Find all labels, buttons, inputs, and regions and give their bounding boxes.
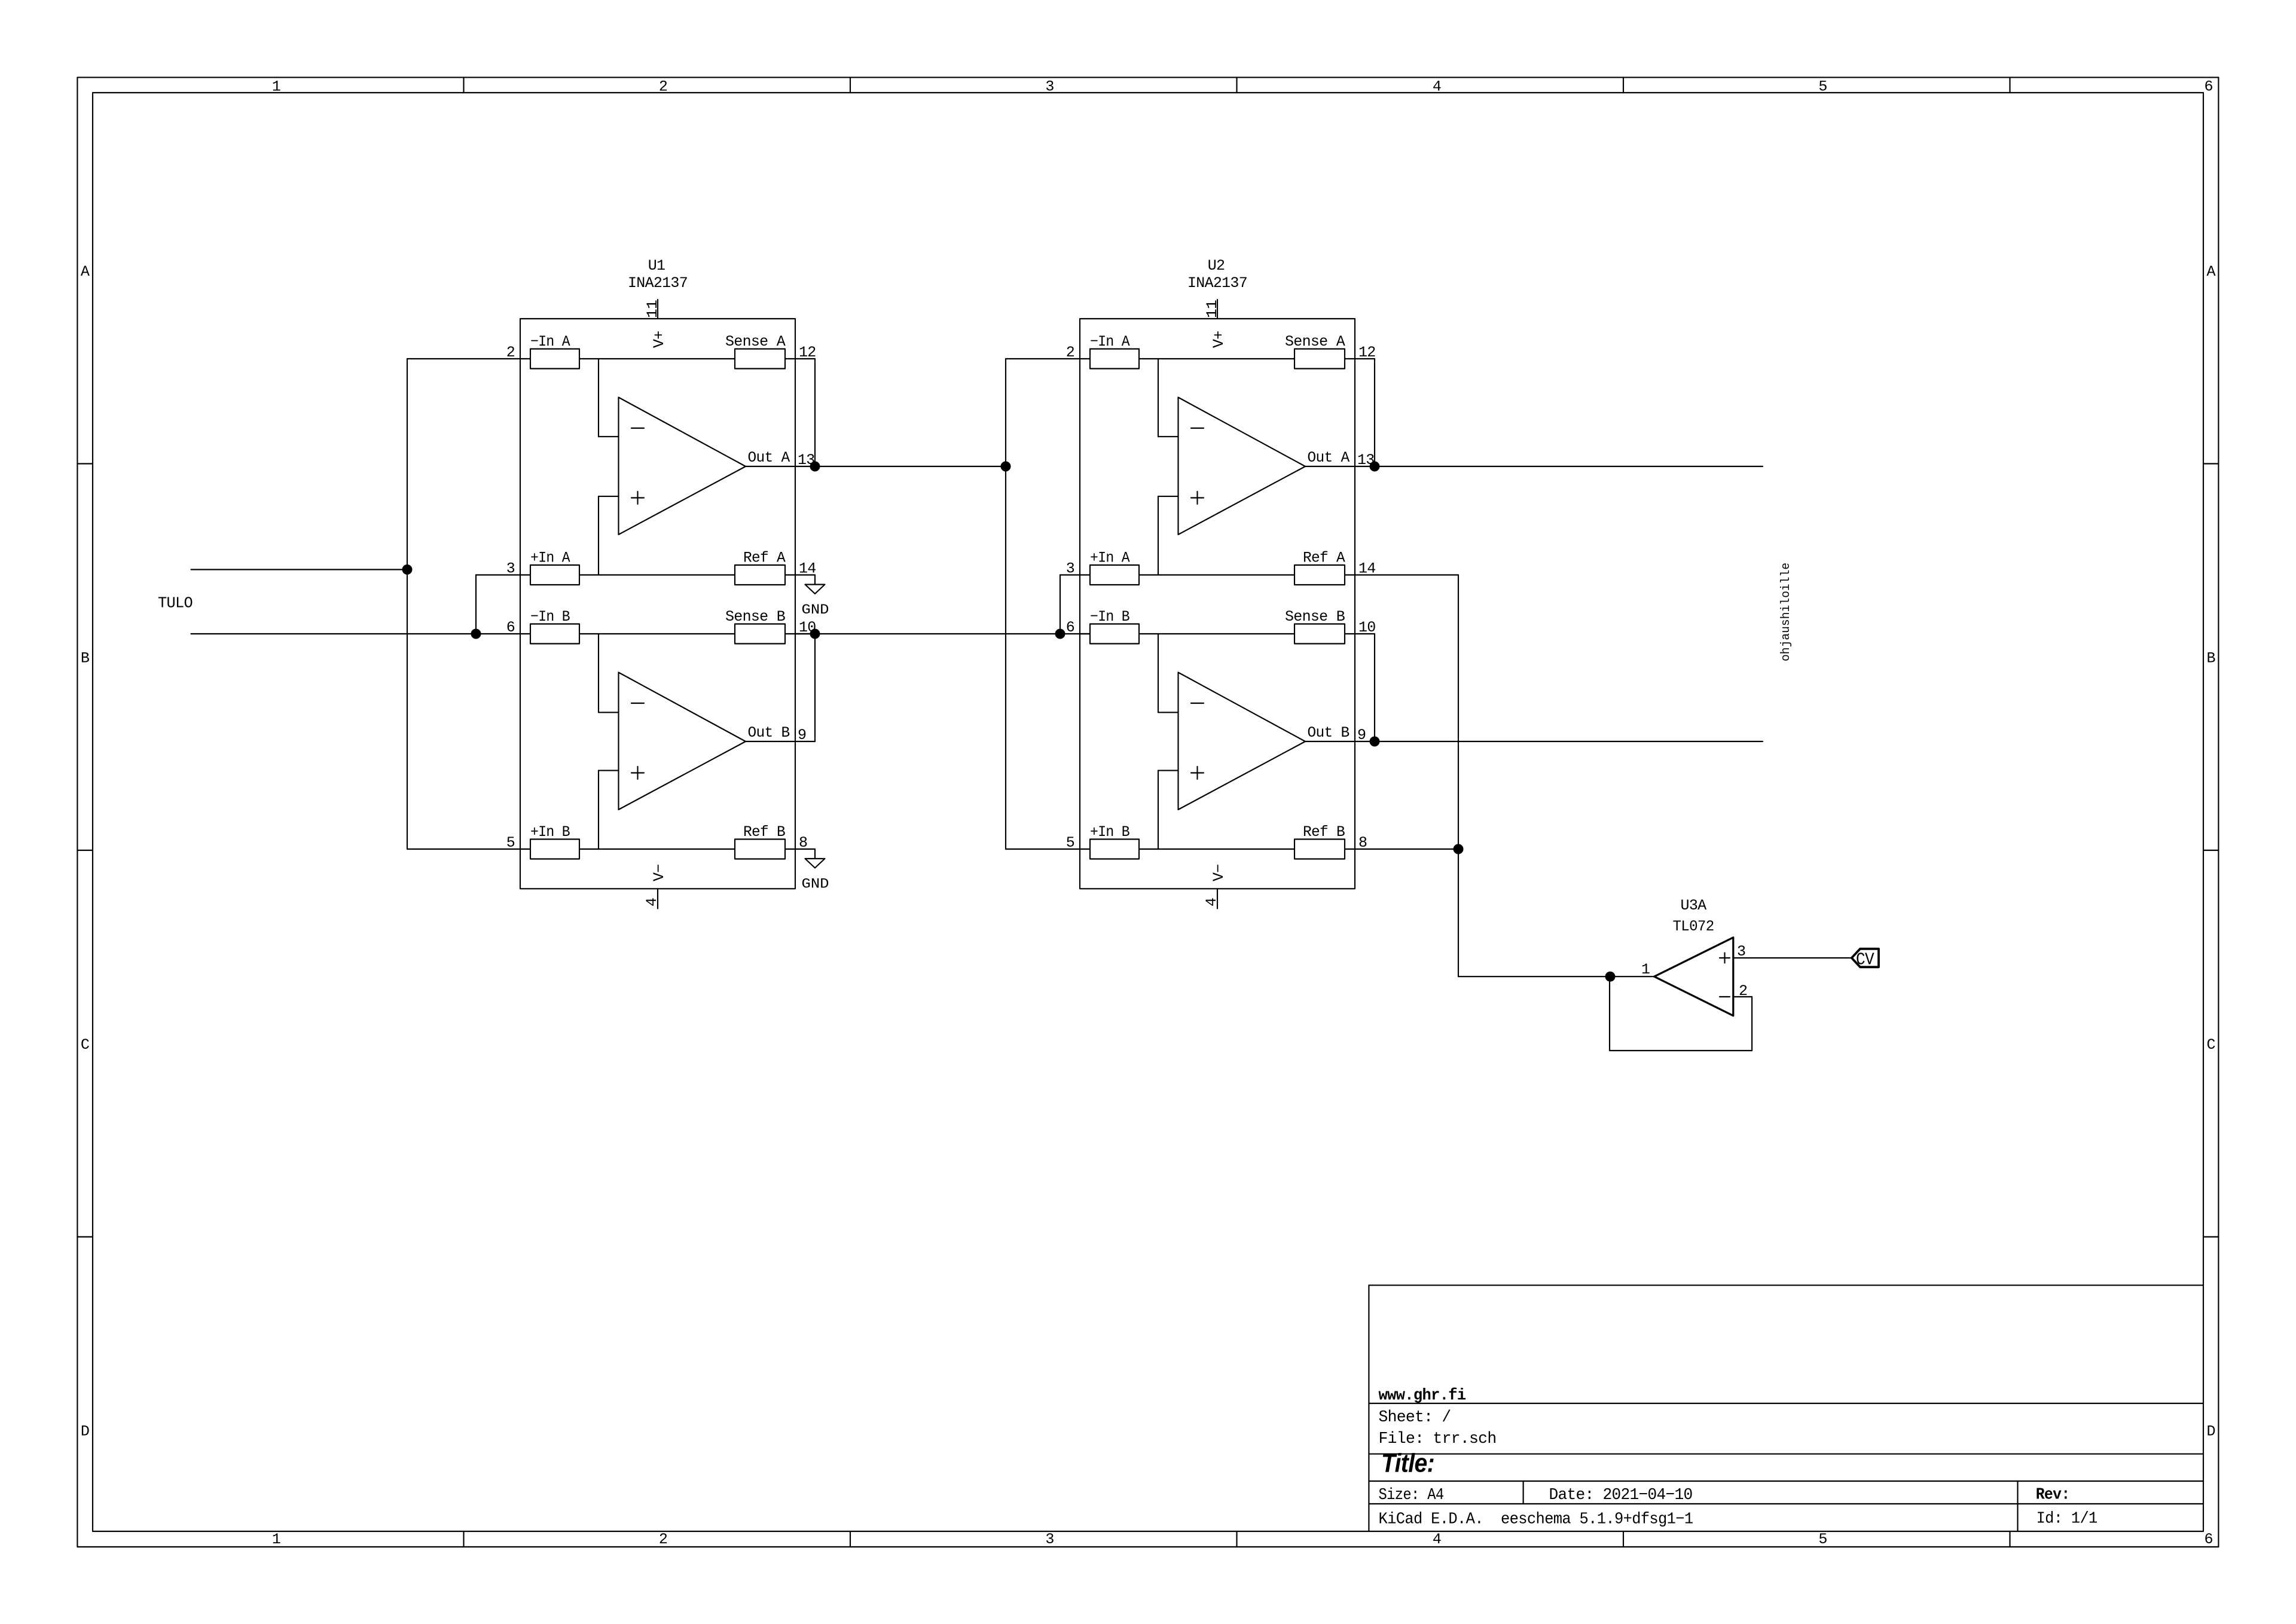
- svg-text:9: 9: [1357, 726, 1366, 744]
- svg-text:B: B: [2206, 650, 2215, 667]
- svg-text:A: A: [2206, 263, 2215, 280]
- svg-text:Out B: Out B: [1308, 724, 1350, 741]
- svg-text:4: 4: [643, 898, 661, 906]
- svg-text:1: 1: [272, 78, 280, 96]
- svg-text:www.ghr.fi: www.ghr.fi: [1379, 1387, 1466, 1405]
- svg-text:−In A: −In A: [530, 333, 570, 350]
- svg-text:4: 4: [1433, 1531, 1441, 1548]
- svg-text:CV: CV: [1856, 950, 1874, 970]
- svg-text:Ref A: Ref A: [1303, 550, 1345, 567]
- svg-text:KiCad E.D.A. eeschema 5.1.9+d: KiCad E.D.A. eeschema 5.1.9+dfsg1−1: [1379, 1510, 1693, 1528]
- svg-text:C: C: [81, 1036, 89, 1054]
- svg-text:Ref B: Ref B: [743, 823, 786, 841]
- svg-text:5: 5: [1818, 78, 1827, 96]
- svg-text:4: 4: [1203, 898, 1220, 906]
- svg-text:+In B: +In B: [1090, 823, 1130, 841]
- svg-text:2: 2: [506, 344, 515, 361]
- svg-text:11: 11: [1204, 300, 1221, 318]
- svg-text:5: 5: [506, 834, 515, 851]
- svg-text:+In B: +In B: [530, 823, 570, 841]
- svg-text:8: 8: [799, 834, 807, 851]
- svg-text:U1: U1: [648, 257, 665, 274]
- svg-text:10: 10: [799, 619, 816, 636]
- svg-text:Title:: Title:: [1381, 1449, 1434, 1478]
- svg-text:D: D: [2206, 1423, 2215, 1440]
- svg-text:14: 14: [799, 560, 816, 578]
- svg-text:12: 12: [799, 344, 816, 361]
- svg-text:2: 2: [659, 1531, 667, 1548]
- svg-text:U2: U2: [1208, 257, 1225, 274]
- svg-text:9: 9: [798, 726, 806, 744]
- svg-text:2: 2: [1739, 982, 1747, 1000]
- svg-text:Id: 1/1: Id: 1/1: [2037, 1510, 2097, 1528]
- svg-text:V+: V+: [1210, 331, 1228, 348]
- svg-text:1: 1: [1641, 961, 1650, 978]
- svg-text:U3A: U3A: [1681, 897, 1707, 914]
- svg-text:−In A: −In A: [1090, 333, 1130, 350]
- svg-text:Out A: Out A: [1308, 449, 1350, 466]
- svg-text:3: 3: [1045, 1531, 1054, 1548]
- svg-text:11: 11: [644, 300, 661, 318]
- svg-text:3: 3: [1066, 560, 1074, 578]
- svg-text:Date: 2021−04−10: Date: 2021−04−10: [1549, 1486, 1693, 1504]
- svg-text:6: 6: [2204, 1531, 2212, 1548]
- svg-text:Sense B: Sense B: [725, 608, 786, 625]
- svg-text:Ref A: Ref A: [743, 550, 786, 567]
- svg-text:2: 2: [659, 78, 667, 96]
- svg-text:Sense A: Sense A: [725, 333, 786, 350]
- svg-text:2: 2: [1066, 344, 1074, 361]
- svg-text:INA2137: INA2137: [628, 274, 688, 292]
- svg-text:1: 1: [272, 1531, 280, 1548]
- svg-text:GND: GND: [802, 602, 829, 618]
- svg-text:Ref B: Ref B: [1303, 823, 1345, 841]
- svg-text:Sense B: Sense B: [1285, 608, 1345, 625]
- svg-text:B: B: [81, 650, 90, 667]
- svg-text:V−: V−: [1210, 864, 1228, 881]
- svg-text:5: 5: [1818, 1531, 1827, 1548]
- svg-text:4: 4: [1433, 78, 1441, 96]
- svg-text:10: 10: [1358, 619, 1376, 636]
- svg-text:Sheet: /: Sheet: /: [1379, 1409, 1451, 1427]
- svg-text:13: 13: [1357, 451, 1375, 469]
- svg-text:14: 14: [1358, 560, 1376, 578]
- svg-text:Size: A4: Size: A4: [1379, 1486, 1444, 1504]
- svg-text:V+: V+: [651, 331, 668, 348]
- svg-text:3: 3: [1737, 943, 1745, 960]
- svg-text:ohjaushiloille: ohjaushiloille: [1779, 563, 1793, 661]
- svg-text:12: 12: [1358, 344, 1376, 361]
- svg-text:−In B: −In B: [1090, 608, 1130, 625]
- svg-text:3: 3: [506, 560, 515, 578]
- svg-text:6: 6: [1066, 619, 1074, 636]
- svg-text:3: 3: [1045, 78, 1054, 96]
- svg-text:D: D: [81, 1423, 89, 1440]
- svg-text:+In A: +In A: [530, 550, 570, 567]
- svg-text:TULO: TULO: [158, 594, 193, 612]
- svg-text:Out B: Out B: [748, 724, 790, 741]
- svg-text:13: 13: [798, 451, 815, 469]
- svg-text:5: 5: [1066, 834, 1074, 851]
- svg-text:GND: GND: [802, 877, 829, 892]
- svg-text:6: 6: [2204, 78, 2212, 96]
- svg-text:INA2137: INA2137: [1187, 274, 1247, 292]
- svg-text:Sense A: Sense A: [1285, 333, 1345, 350]
- svg-text:8: 8: [1358, 834, 1367, 851]
- svg-text:−In B: −In B: [530, 608, 570, 625]
- svg-text:A: A: [81, 263, 90, 280]
- svg-text:6: 6: [506, 619, 515, 636]
- svg-text:V−: V−: [651, 864, 668, 881]
- svg-text:+In A: +In A: [1090, 550, 1130, 567]
- svg-text:TL072: TL072: [1673, 918, 1714, 935]
- svg-text:Rev:: Rev:: [2036, 1486, 2070, 1504]
- svg-text:File: trr.sch: File: trr.sch: [1379, 1430, 1497, 1448]
- svg-text:C: C: [2206, 1036, 2215, 1054]
- svg-text:Out A: Out A: [748, 449, 790, 466]
